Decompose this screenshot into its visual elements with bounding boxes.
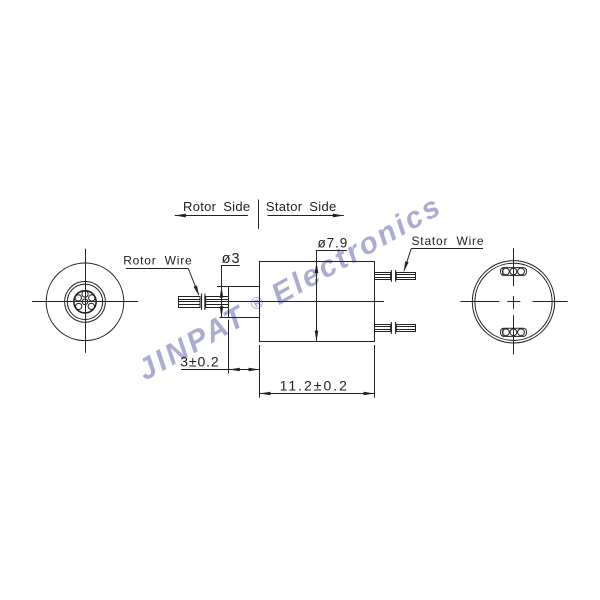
svg-text:Rotor Wire: Rotor Wire <box>123 254 192 268</box>
svg-text:ø7.9: ø7.9 <box>318 236 349 251</box>
svg-text:Stator Side: Stator Side <box>266 199 337 214</box>
svg-text:Rotor Side: Rotor Side <box>183 199 250 214</box>
svg-text:ø3: ø3 <box>222 251 241 267</box>
svg-text:3±0.2: 3±0.2 <box>180 353 219 369</box>
svg-text:Stator Wire: Stator Wire <box>412 234 485 248</box>
svg-text:11.2±0.2: 11.2±0.2 <box>280 378 349 394</box>
